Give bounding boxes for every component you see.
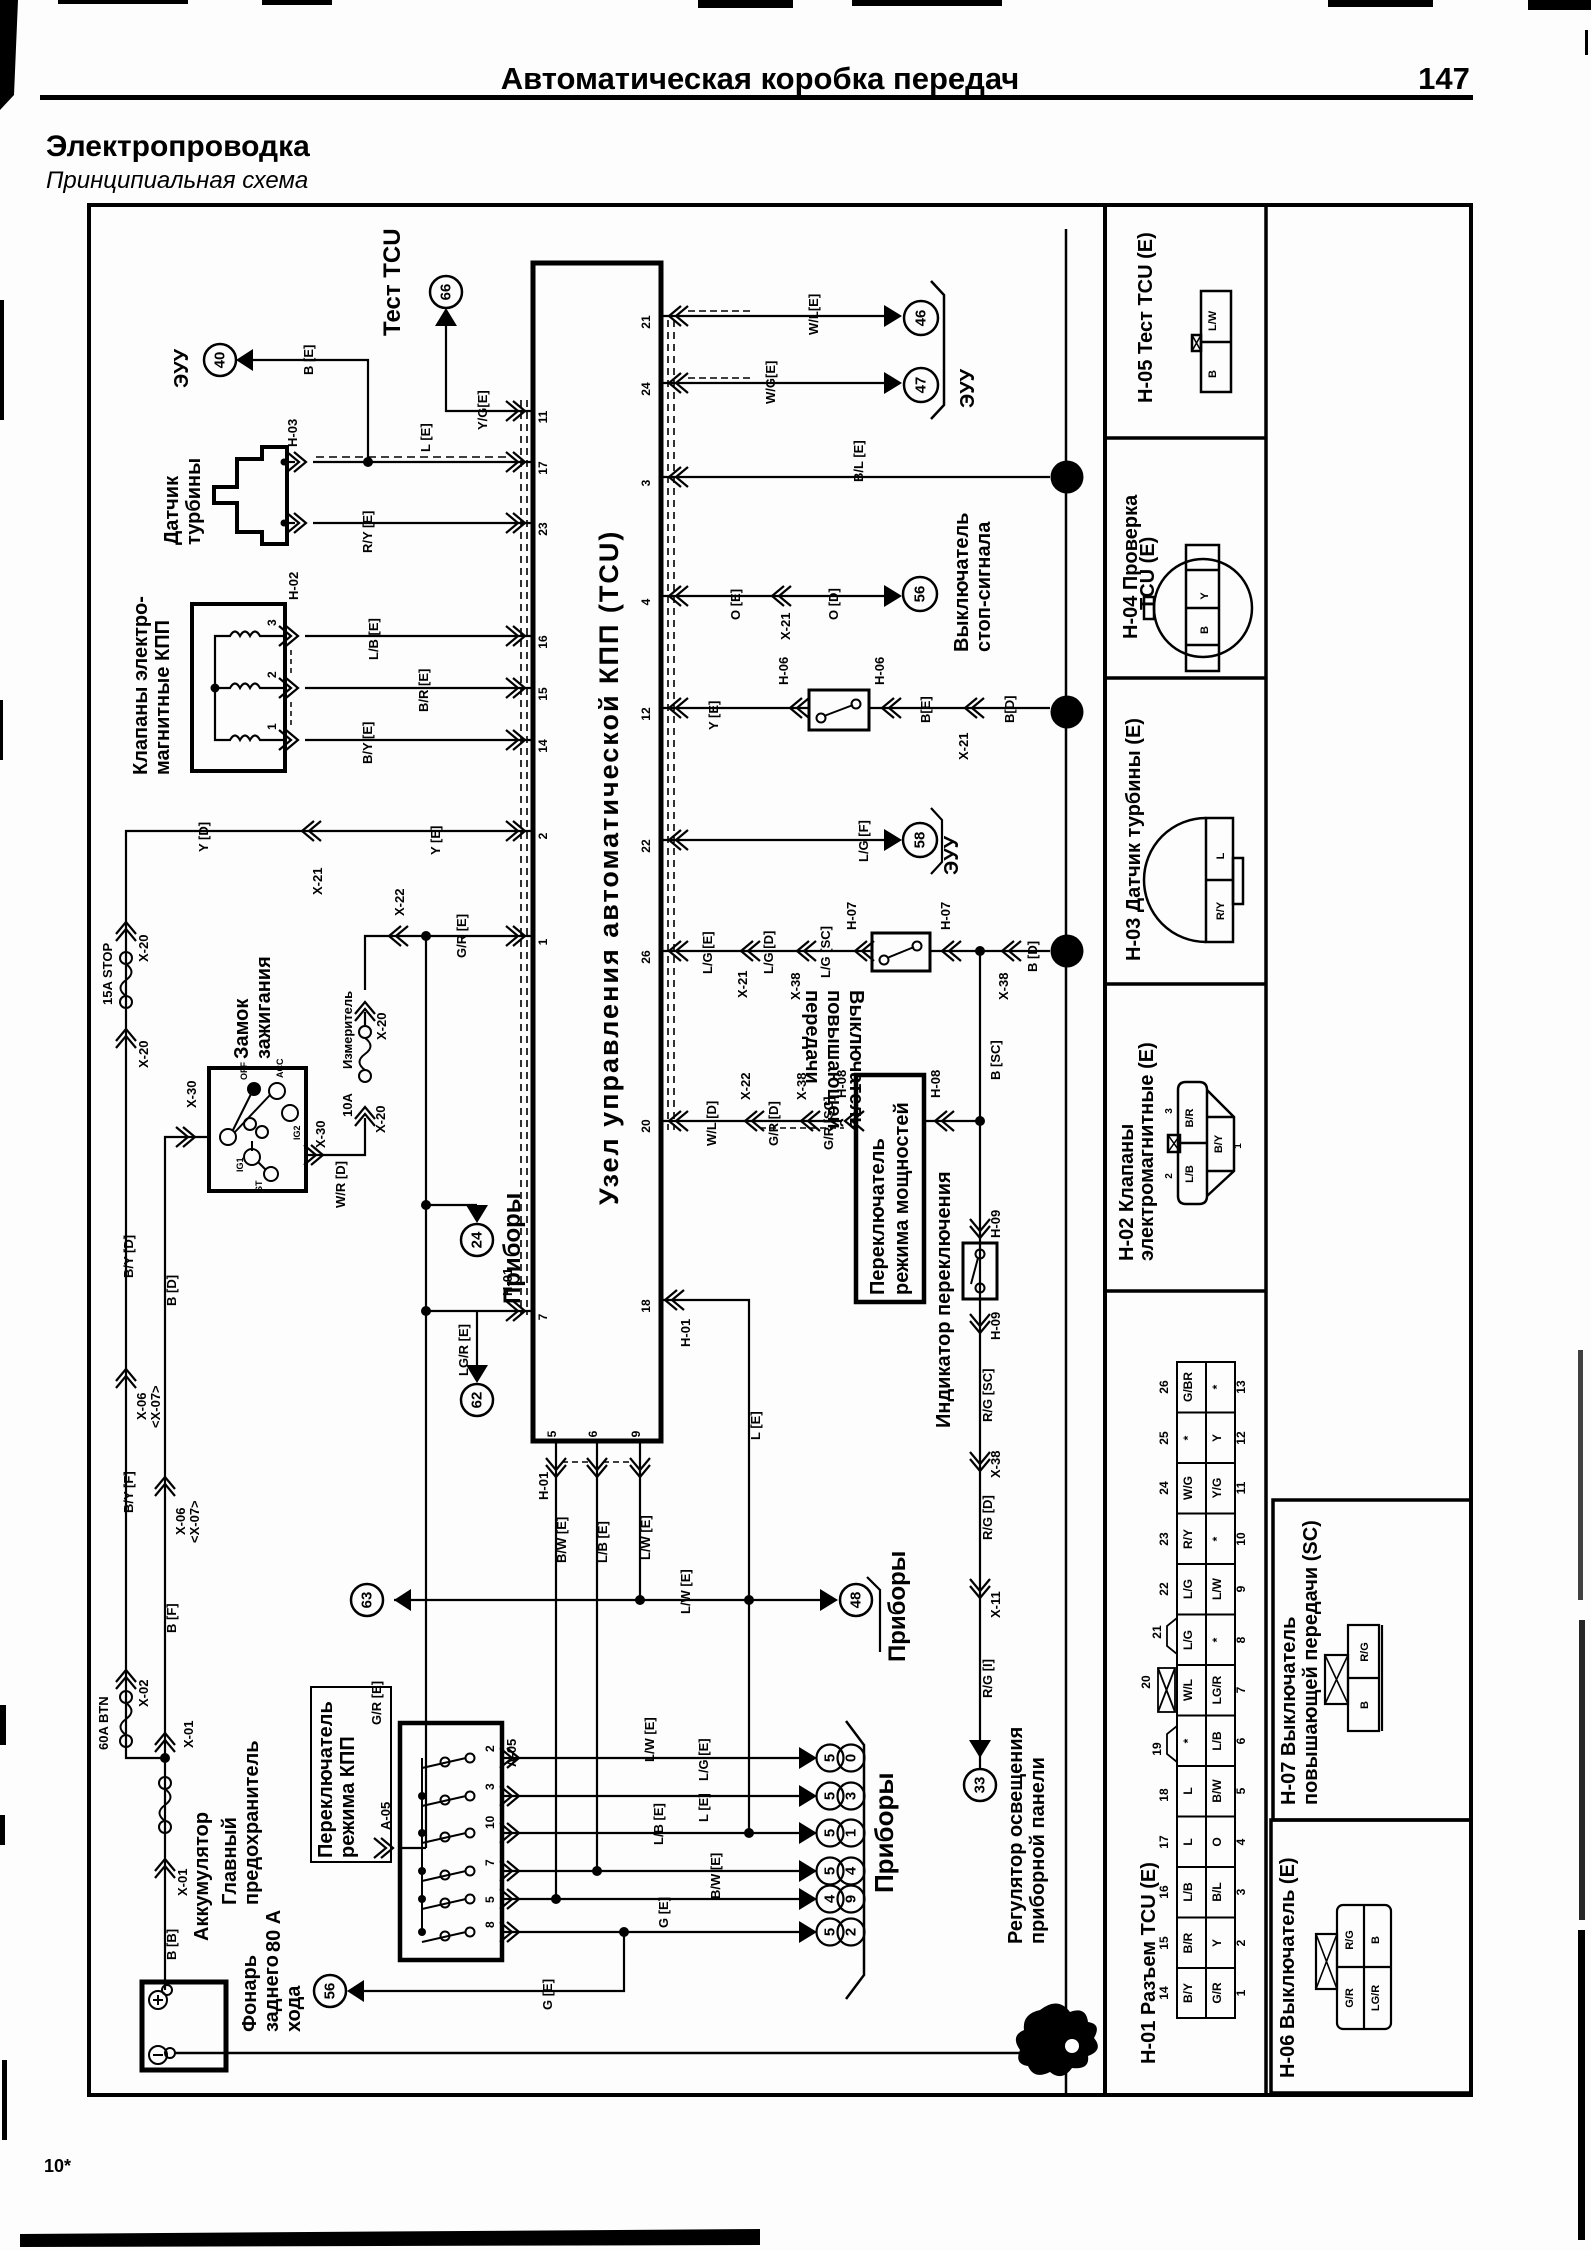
svg-text:5: 5 bbox=[545, 1430, 559, 1437]
svg-text:H-01: H-01 bbox=[678, 1319, 693, 1347]
svg-text:Главный: Главный bbox=[219, 1817, 241, 1905]
fuse main 80A bbox=[159, 1777, 171, 1789]
svg-text:24: 24 bbox=[639, 382, 653, 396]
svg-text:H-07: H-07 bbox=[938, 902, 953, 930]
svg-text:B [D]: B [D] bbox=[1025, 941, 1040, 972]
svg-text:G/R: G/R bbox=[1344, 1988, 1356, 2008]
svg-text:5: 5 bbox=[822, 1829, 839, 1837]
scan artifact: right edge streak bbox=[1578, 30, 1588, 2240]
shield dashes between valve connector marks bbox=[290, 650, 292, 676]
svg-text:W/G: W/G bbox=[1181, 1476, 1195, 1500]
scan artifact: left edge marks bbox=[0, 300, 7, 2140]
svg-text:*: * bbox=[1210, 1536, 1224, 1541]
svg-text:12: 12 bbox=[639, 707, 653, 721]
svg-text:R/Y: R/Y bbox=[1181, 1529, 1195, 1549]
coil 2 bbox=[221, 684, 268, 689]
svg-text:L/G: L/G bbox=[1181, 1630, 1195, 1650]
svg-text:7: 7 bbox=[483, 1859, 497, 1866]
TCU pin numbers left side bbox=[536, 410, 550, 1320]
svg-text:5: 5 bbox=[822, 1792, 839, 1800]
reverse lamp (Фонарь заднего хода) circle 56 bbox=[239, 1955, 364, 2032]
svg-text:L/W [E]: L/W [E] bbox=[678, 1569, 693, 1614]
bracket ЭУУ 46 47 bbox=[931, 281, 944, 419]
battery plus terminal bbox=[149, 1991, 167, 2009]
svg-text:передачи: передачи bbox=[801, 990, 823, 1084]
H-01 row 21/8 bbox=[1150, 1625, 1248, 1650]
switch contacts bbox=[220, 1083, 298, 1181]
wire G/R[E] node to TCU pin 1 bbox=[426, 935, 533, 937]
TCU control unit box (Узел управления автоматической КПП) bbox=[533, 263, 661, 1441]
svg-text:H-03: H-03 bbox=[285, 419, 300, 447]
indicator switch symbol bbox=[963, 1243, 997, 1299]
svg-text:электромагнитные (Е): электромагнитные (Е) bbox=[1136, 1042, 1158, 1261]
connector X-01 lower bbox=[155, 1859, 175, 1878]
wire G[E] reverse lamp to mode switch row bbox=[364, 1932, 624, 1991]
svg-text:Автоматическая коробка передач: Автоматическая коробка передач bbox=[501, 61, 1020, 96]
node circle 33 bbox=[964, 1769, 996, 1801]
svg-text:10*: 10* bbox=[44, 2156, 71, 2176]
svg-text:B [B]: B [B] bbox=[164, 1929, 179, 1960]
battery (Аккумулятор) bbox=[142, 1740, 285, 2070]
svg-text:Аккумулятор: Аккумулятор bbox=[191, 1812, 213, 1941]
wire B[SC] vertical between nodes bbox=[979, 951, 981, 1121]
svg-text:магнитные КПП: магнитные КПП bbox=[152, 620, 174, 775]
wire trunk G/R vertical down bbox=[425, 936, 427, 1848]
H-01 row 25/12 bbox=[1157, 1431, 1248, 1445]
svg-text:L/B: L/B bbox=[1184, 1165, 1196, 1183]
svg-text:R/G [D]: R/G [D] bbox=[980, 1495, 995, 1540]
ground blob junction bbox=[1016, 2003, 1098, 2076]
svg-text:X-38: X-38 bbox=[794, 1073, 809, 1100]
net node 2b bbox=[1051, 935, 1084, 968]
svg-text:LG/R: LG/R bbox=[1210, 1675, 1224, 1704]
H-01 row 22/9 bbox=[1157, 1577, 1248, 1600]
svg-text:L/W: L/W bbox=[1210, 1577, 1224, 1600]
svg-text:B [SC]: B [SC] bbox=[988, 1040, 1003, 1080]
svg-text:1: 1 bbox=[265, 723, 279, 730]
svg-text:H-08: H-08 bbox=[834, 1070, 849, 1098]
svg-text:L: L bbox=[1181, 1787, 1195, 1794]
svg-text:1: 1 bbox=[1233, 1143, 1244, 1149]
bus vertical right bbox=[1065, 229, 1068, 2030]
wire L[E] sensor to TCU pin 17 bbox=[313, 461, 533, 463]
svg-text:2: 2 bbox=[1059, 947, 1076, 955]
connector H-07 Выключатель повышающей передачи (SC) box bbox=[1273, 1500, 1471, 1820]
svg-text:2: 2 bbox=[536, 832, 550, 839]
mode switch output wires with connector marks bbox=[502, 1758, 799, 1932]
svg-text:режима КПП: режима КПП bbox=[337, 1736, 359, 1858]
svg-text:23: 23 bbox=[536, 522, 550, 536]
junction dot battery feed bbox=[160, 1753, 170, 1763]
svg-text:24: 24 bbox=[1157, 1481, 1171, 1495]
svg-text:H-09: H-09 bbox=[988, 1312, 1003, 1340]
connector X-02 on line A bbox=[116, 1670, 136, 1689]
dashed shield to power switch bbox=[760, 1127, 844, 1129]
svg-text:X-01: X-01 bbox=[181, 1721, 196, 1748]
svg-text:L/W [E]: L/W [E] bbox=[642, 1717, 657, 1762]
wire branch to instruments circle 24 bbox=[421, 1200, 431, 1210]
svg-text:X-20: X-20 bbox=[374, 1013, 389, 1040]
svg-text:5: 5 bbox=[822, 1928, 839, 1936]
svg-text:B/Y: B/Y bbox=[1213, 1134, 1225, 1153]
wire TCU pin 24 to ECU circle 47 bbox=[661, 382, 884, 384]
wire TCU pin 21 to ECU circle 46 bbox=[661, 315, 884, 317]
svg-text:5: 5 bbox=[822, 1867, 839, 1875]
svg-text:3: 3 bbox=[265, 619, 279, 626]
svg-text:B/R [E]: B/R [E] bbox=[416, 669, 431, 712]
svg-text:L [E]: L [E] bbox=[748, 1411, 763, 1440]
svg-text:*: * bbox=[1210, 1637, 1224, 1642]
svg-text:O: O bbox=[1210, 1837, 1224, 1846]
svg-text:Y/G[E]: Y/G[E] bbox=[475, 390, 490, 430]
svg-text:B: B bbox=[1370, 1936, 1382, 1944]
wire B/R[E] valve2 to TCU pin 15 bbox=[305, 687, 533, 689]
coil pin wires bbox=[268, 635, 285, 637]
svg-text:9: 9 bbox=[629, 1430, 643, 1437]
svg-text:IG1: IG1 bbox=[235, 1157, 245, 1172]
divider: connector column / right column bbox=[1264, 205, 1268, 2095]
connector marks valve pins bbox=[279, 626, 298, 646]
H-05 connector body bbox=[1192, 291, 1231, 392]
svg-text:L/B [E]: L/B [E] bbox=[595, 1521, 610, 1563]
H-01 row 20/7 bbox=[1139, 1675, 1248, 1704]
switch contacts rows bbox=[422, 1754, 475, 1943]
wire TCU pin 12 through stop switch H-06 to node 2 bbox=[661, 707, 809, 709]
arrows into instrument circles bbox=[799, 1747, 817, 1943]
wire TCU pin 18 L[E] bbox=[661, 1300, 749, 1833]
svg-text:X-11: X-11 bbox=[988, 1591, 1003, 1618]
scan artifact: bottom black bar bbox=[20, 2229, 760, 2247]
svg-text:R/G: R/G bbox=[1344, 1930, 1356, 1950]
battery minus terminal bbox=[149, 2046, 167, 2064]
node ECU circle 47 bbox=[904, 368, 938, 402]
svg-text:приборной панели: приборной панели bbox=[1027, 1757, 1049, 1944]
svg-text:4: 4 bbox=[639, 598, 653, 605]
turbine sensor (Датчик турбины) bbox=[161, 447, 295, 545]
wire TCU pin 26 through overdrive switch H-07 to node 2b bbox=[661, 950, 872, 952]
svg-text:Индикатор переключения: Индикатор переключения bbox=[933, 1171, 955, 1428]
connector X-30 left bbox=[176, 1127, 195, 1147]
svg-text:2: 2 bbox=[1059, 708, 1076, 716]
svg-text:H-01: H-01 bbox=[500, 1268, 515, 1296]
svg-text:B [F]: B [F] bbox=[164, 1603, 179, 1633]
svg-text:B [E]: B [E] bbox=[301, 345, 316, 375]
svg-text:X-20: X-20 bbox=[136, 935, 151, 962]
svg-text:X-22: X-22 bbox=[392, 889, 407, 916]
H-01 bracket pin 21 bbox=[1167, 1618, 1177, 1654]
svg-text:B/R: B/R bbox=[1181, 1932, 1195, 1953]
svg-text:X-38: X-38 bbox=[788, 973, 803, 1000]
svg-text:L: L bbox=[1215, 852, 1227, 859]
svg-text:*: * bbox=[1181, 1738, 1195, 1743]
wire B[E] from circle 40 to junction bbox=[253, 360, 368, 462]
wire shield dash over L[E] bbox=[316, 456, 512, 458]
svg-text:33: 33 bbox=[972, 1777, 989, 1794]
TCU shield dashed bus left bbox=[521, 400, 527, 1315]
svg-text:O [D]: O [D] bbox=[826, 588, 841, 620]
H-07 connector symbol bbox=[1325, 1625, 1382, 1731]
svg-text:4: 4 bbox=[843, 1866, 860, 1875]
node ECU circle 58 bbox=[903, 823, 937, 857]
svg-text:21: 21 bbox=[1150, 1625, 1164, 1639]
svg-text:B/Y [F]: B/Y [F] bbox=[121, 1471, 136, 1513]
svg-text:Измеритель: Измеритель bbox=[340, 991, 355, 1069]
fuse 10A Измеритель bbox=[340, 991, 371, 1117]
svg-text:B [D]: B [D] bbox=[164, 1275, 179, 1306]
connector X-01 upper bbox=[155, 1733, 175, 1752]
svg-text:<X-07>: <X-07> bbox=[148, 1385, 163, 1428]
svg-text:предохранитель: предохранитель bbox=[241, 1740, 263, 1905]
fuse 60A BTN bbox=[96, 1691, 132, 1750]
svg-text:G/R [E]: G/R [E] bbox=[454, 914, 469, 958]
svg-text:W/L[E]: W/L[E] bbox=[806, 294, 821, 335]
svg-text:10: 10 bbox=[1234, 1532, 1248, 1546]
svg-text:Н-05 Тест TCU (Е): Н-05 Тест TCU (Е) bbox=[1135, 232, 1157, 403]
svg-text:L/B: L/B bbox=[1210, 1731, 1224, 1751]
svg-text:46: 46 bbox=[913, 310, 930, 327]
overdrive switch symbol bbox=[872, 933, 930, 971]
node ЭУУ circle 40 bbox=[171, 344, 253, 388]
svg-text:A-05: A-05 bbox=[378, 1802, 393, 1830]
svg-text:Y [D]: Y [D] bbox=[196, 822, 211, 852]
switch pin numbers bbox=[483, 1745, 497, 1928]
svg-text:3: 3 bbox=[1234, 1888, 1248, 1895]
svg-text:60A BTN: 60A BTN bbox=[96, 1696, 111, 1750]
node Приборы circle 24 bbox=[461, 1224, 493, 1256]
connector mark pin 11 bbox=[506, 401, 525, 421]
svg-text:L [E]: L [E] bbox=[696, 1793, 711, 1822]
wire branch to circle 62 bbox=[476, 1311, 478, 1365]
wire TCU pin 22 to ECU circle 58 bbox=[661, 839, 884, 841]
connector marks sensor pins bbox=[287, 452, 306, 472]
svg-text:R/Y: R/Y bbox=[1215, 901, 1227, 920]
wire B/Y[E] valve1 to TCU pin 14 bbox=[305, 739, 533, 741]
H-01 row 16/3 bbox=[1157, 1882, 1248, 1902]
ground wire battery minus to right bbox=[175, 2052, 1042, 2055]
svg-text:40: 40 bbox=[212, 352, 229, 369]
node ECU circle 46 bbox=[904, 301, 938, 335]
connector H-02 Клапаны электромагнитные (E) cell bbox=[1116, 1042, 1244, 1261]
svg-text:X-38: X-38 bbox=[988, 1451, 1003, 1478]
TCU pin numbers right side bbox=[639, 315, 653, 1313]
svg-text:X-20: X-20 bbox=[373, 1106, 388, 1133]
svg-text:X-30: X-30 bbox=[313, 1121, 328, 1148]
svg-text:2: 2 bbox=[1164, 1173, 1175, 1179]
connector H-03 Датчик турбины (E) cell bbox=[1123, 718, 1243, 961]
coil pin numbers bbox=[265, 619, 279, 730]
coil 3 bbox=[221, 736, 268, 741]
svg-text:Переключатель: Переключатель bbox=[315, 1701, 337, 1858]
svg-text:24: 24 bbox=[469, 1231, 486, 1248]
svg-text:Замок: Замок bbox=[231, 998, 253, 1059]
TCU bottom pin 6 wire L/B[E] bbox=[596, 1441, 598, 1871]
svg-text:<X-07>: <X-07> bbox=[187, 1500, 202, 1543]
svg-text:H-01: H-01 bbox=[536, 1472, 551, 1500]
wire TCU pin 4 to stop lamp circle 56 bbox=[661, 595, 884, 597]
connector H-05 Тест TCU (E) cell bbox=[1135, 232, 1231, 403]
wire W/R[D] ignition to meter fuse bbox=[306, 1118, 365, 1155]
svg-text:стоп-сигнала: стоп-сигнала bbox=[973, 521, 995, 652]
scan artifact: top edge black bar segments bbox=[0, 0, 1591, 110]
header rule bbox=[40, 95, 1473, 100]
svg-text:X-21: X-21 bbox=[956, 733, 971, 760]
svg-text:Электропроводка: Электропроводка bbox=[46, 130, 310, 163]
connector X-20 below meter fuse bbox=[355, 1107, 375, 1126]
svg-text:0: 0 bbox=[843, 1754, 860, 1762]
bracket Приборы group bbox=[846, 1721, 864, 1999]
svg-text:Выключатель: Выключатель bbox=[951, 513, 973, 652]
svg-text:X-21: X-21 bbox=[310, 868, 325, 895]
svg-text:20: 20 bbox=[639, 1119, 653, 1133]
wire R/Y[E] sensor to TCU pin 23 bbox=[313, 522, 533, 524]
H-03 connector semicircle bbox=[1144, 818, 1243, 942]
gear mode switch box A-05 bbox=[400, 1723, 502, 1960]
svg-text:W/R [D]: W/R [D] bbox=[333, 1161, 348, 1208]
svg-text:Фонарь: Фонарь bbox=[239, 1955, 261, 2032]
TCU pin numbers bottom bbox=[545, 1430, 643, 1437]
H-01 row 23/10 bbox=[1157, 1529, 1248, 1549]
cell divider H-05/H-04 bbox=[1105, 436, 1266, 440]
TCU bottom pin 9 wire L/W[E] bbox=[639, 1441, 641, 1599]
svg-text:Принципиальная схема: Принципиальная схема bbox=[46, 167, 308, 194]
svg-text:16: 16 bbox=[1157, 1885, 1171, 1899]
svg-text:X-21: X-21 bbox=[735, 971, 750, 998]
svg-text:G/R [D]: G/R [D] bbox=[766, 1101, 781, 1146]
svg-text:5: 5 bbox=[483, 1896, 497, 1903]
svg-text:B/W: B/W bbox=[1210, 1779, 1224, 1803]
net node 6 bbox=[1051, 461, 1084, 494]
svg-text:12: 12 bbox=[1234, 1431, 1248, 1445]
svg-text:L/B [E]: L/B [E] bbox=[366, 618, 381, 660]
bracket circle 58 bbox=[931, 808, 942, 874]
svg-text:X-20: X-20 bbox=[136, 1041, 151, 1068]
svg-text:повышающей передачи (SC): повышающей передачи (SC) bbox=[1300, 1520, 1322, 1805]
TCU bottom pin 5 wire B/W[E] bbox=[555, 1441, 557, 1899]
svg-text:X-02: X-02 bbox=[136, 1680, 151, 1707]
svg-text:B/Y: B/Y bbox=[1181, 1983, 1195, 2003]
cell divider H-03/H-02 bbox=[1105, 982, 1266, 986]
svg-text:11: 11 bbox=[536, 410, 550, 423]
H-01 pin table grid bbox=[1177, 1362, 1235, 2018]
svg-text:режима мощностей: режима мощностей bbox=[891, 1102, 913, 1295]
svg-text:3: 3 bbox=[843, 1792, 860, 1800]
node circle 56 stop switch bbox=[903, 577, 937, 611]
wire TCU pin 20 through power mode switch H-08 bbox=[661, 1120, 842, 1122]
svg-text:*: * bbox=[1181, 1435, 1195, 1440]
svg-text:18: 18 bbox=[639, 1299, 653, 1313]
svg-text:B: B bbox=[1207, 370, 1219, 378]
svg-text:80 А: 80 А bbox=[263, 1910, 285, 1952]
svg-text:L/W: L/W bbox=[1207, 310, 1219, 331]
svg-text:48: 48 bbox=[848, 1592, 865, 1609]
svg-text:H-07: H-07 bbox=[844, 902, 859, 930]
svg-text:R/Y [E]: R/Y [E] bbox=[360, 511, 375, 553]
svg-text:19: 19 bbox=[1150, 1742, 1164, 1756]
gear mode switch label frame (Переключатель режима КПП) bbox=[311, 1687, 391, 1862]
svg-text:17: 17 bbox=[536, 461, 550, 475]
svg-text:Приборы: Приборы bbox=[884, 1551, 911, 1662]
wire Y[E]/Y[D] TCU pin 2 to left feed line bbox=[126, 831, 533, 1758]
svg-text:7: 7 bbox=[536, 1313, 550, 1320]
H-01 X-box pin 20 bbox=[1158, 1668, 1175, 1712]
svg-text:56: 56 bbox=[912, 586, 929, 603]
svg-text:IG2: IG2 bbox=[292, 1125, 302, 1140]
H-01 row 14/1 bbox=[1157, 1982, 1248, 2004]
svg-text:15A STOP: 15A STOP bbox=[100, 943, 115, 1005]
connector X-21 on wire Y bbox=[302, 821, 321, 841]
svg-text:47: 47 bbox=[913, 377, 930, 394]
solenoid valves box (Клапаны электромагнитные КПП) bbox=[130, 596, 285, 775]
svg-text:X-22: X-22 bbox=[738, 1073, 753, 1100]
svg-text:6: 6 bbox=[586, 1430, 600, 1437]
svg-text:L/G [F]: L/G [F] bbox=[856, 820, 871, 862]
svg-text:L/B [E]: L/B [E] bbox=[651, 1803, 666, 1845]
svg-text:OFF: OFF bbox=[239, 1062, 249, 1080]
wire TCU pin 3 B/L[E] to node 6 bbox=[661, 476, 1050, 478]
svg-text:B/R: B/R bbox=[1184, 1108, 1196, 1127]
svg-text:L: L bbox=[1181, 1838, 1195, 1845]
svg-text:25: 25 bbox=[1157, 1431, 1171, 1445]
svg-text:L/G [E]: L/G [E] bbox=[700, 931, 715, 974]
svg-text:G/R [E]: G/R [E] bbox=[369, 1681, 384, 1725]
H-01 bracket pin 19 bbox=[1167, 1726, 1177, 1762]
node circle 48 bbox=[820, 1589, 838, 1611]
svg-text:G/R [SC]: G/R [SC] bbox=[821, 1097, 836, 1150]
svg-text:G [E]: G [E] bbox=[540, 1979, 555, 2010]
svg-text:W/G[E]: W/G[E] bbox=[763, 361, 778, 404]
svg-text:хода: хода bbox=[283, 1985, 305, 2032]
svg-text:X-06: X-06 bbox=[134, 1393, 149, 1420]
svg-text:L/G [D]: L/G [D] bbox=[761, 931, 776, 974]
bracket circle 48 bbox=[867, 1577, 880, 1652]
svg-text:13: 13 bbox=[1234, 1380, 1248, 1394]
svg-text:ST: ST bbox=[254, 1180, 264, 1192]
svg-text:B/L [E]: B/L [E] bbox=[851, 440, 866, 482]
svg-text:4: 4 bbox=[1234, 1838, 1248, 1845]
svg-text:L [E]: L [E] bbox=[418, 423, 433, 452]
svg-text:56: 56 bbox=[322, 1983, 339, 2000]
svg-text:B/Y [D]: B/Y [D] bbox=[121, 1235, 136, 1278]
connector X-06 X-07 on line A bbox=[116, 1369, 136, 1388]
svg-text:G [E]: G [E] bbox=[656, 1897, 671, 1928]
connector X-22 bbox=[389, 926, 408, 946]
H-01 row 26/13 bbox=[1157, 1372, 1248, 1402]
H-01 row 17/4 bbox=[1157, 1835, 1248, 1849]
svg-text:ЭУУ: ЭУУ bbox=[171, 348, 193, 388]
H-06 connector symbol bbox=[1316, 1905, 1391, 2029]
svg-text:Регулятор освещения: Регулятор освещения bbox=[1005, 1727, 1027, 1944]
svg-text:X-01: X-01 bbox=[175, 1869, 190, 1896]
connector X-20 lower bbox=[116, 1029, 136, 1048]
svg-text:R/G: R/G bbox=[1359, 1642, 1371, 1662]
svg-text:B/W [E]: B/W [E] bbox=[708, 1853, 723, 1899]
shield dashes bottom pins bbox=[562, 1461, 592, 1463]
svg-text:Узел управления автоматической: Узел управления автоматической КПП (TCU) bbox=[594, 530, 624, 1205]
svg-text:1: 1 bbox=[536, 938, 550, 945]
svg-text:17: 17 bbox=[1157, 1835, 1171, 1849]
svg-text:Y: Y bbox=[1199, 592, 1211, 600]
node circle 63 bbox=[394, 1589, 411, 1611]
wire L/W[E] horizontal to circles 63 and 48 bbox=[394, 1599, 820, 1601]
svg-text:18: 18 bbox=[1157, 1788, 1171, 1802]
wire meter fuse up to G/R node bbox=[365, 936, 426, 990]
svg-text:5: 5 bbox=[822, 1754, 839, 1762]
junction dot G/R node bbox=[421, 931, 431, 941]
svg-text:15: 15 bbox=[536, 687, 550, 701]
svg-text:зажигания: зажигания bbox=[253, 956, 275, 1059]
svg-text:26: 26 bbox=[1157, 1380, 1171, 1394]
svg-text:5: 5 bbox=[1234, 1787, 1248, 1794]
